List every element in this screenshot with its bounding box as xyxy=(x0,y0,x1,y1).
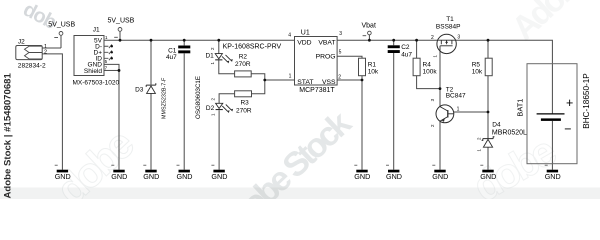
wire T1 gate to T2 collector xyxy=(439,51,441,106)
wire D3 top xyxy=(150,40,152,84)
svg-text:BC847: BC847 xyxy=(446,93,466,100)
LED D2 xyxy=(195,76,233,119)
node base junction xyxy=(487,111,490,114)
node shield junction xyxy=(118,69,121,72)
ground C2 xyxy=(386,165,402,181)
D2 triangle xyxy=(216,103,223,108)
T1 gate bar xyxy=(440,45,452,47)
footer watermark band xyxy=(0,188,600,200)
svg-text:3: 3 xyxy=(339,31,342,37)
wire J1 GND pin xyxy=(104,64,119,70)
ground J2 xyxy=(55,165,71,181)
D2 cathode bar xyxy=(216,109,223,110)
wire battery cell to GND xyxy=(551,121,553,170)
no-connect pin ID xyxy=(104,57,112,61)
BAT1 holder outline xyxy=(527,64,577,164)
ground D4 xyxy=(480,165,496,181)
resistor R5 xyxy=(472,58,493,75)
node J1 5V junction xyxy=(119,39,122,42)
battery BAT1 xyxy=(516,64,591,164)
node junction dots xyxy=(118,39,490,114)
T2 base bar xyxy=(447,110,449,117)
svg-text:MCP7381T: MCP7381T xyxy=(299,87,335,94)
svg-text:GND: GND xyxy=(55,172,71,181)
D1 emission arrows xyxy=(222,55,231,62)
wire VSS node to GND xyxy=(361,80,363,170)
T2 collector emitter xyxy=(440,107,448,122)
svg-text:BHC-18650-1P: BHC-18650-1P xyxy=(582,73,591,129)
wire T2 emitter to GND xyxy=(439,121,441,169)
svg-text:Vbat: Vbat xyxy=(362,22,376,29)
svg-text:+: + xyxy=(566,96,573,110)
wire Vbat flag drop xyxy=(368,35,370,40)
T2 emitter arrow xyxy=(441,118,444,122)
wire STAT node to U1 pin1 xyxy=(265,79,295,81)
wire R5 top xyxy=(487,40,489,58)
wire R2 to STAT node xyxy=(251,74,265,80)
wire D1 cathode to R2 xyxy=(219,60,235,74)
wire D3 bottom to GND xyxy=(150,94,152,170)
wire Vbat rail T1 to battery xyxy=(455,40,552,113)
svg-text:R2: R2 xyxy=(239,53,248,60)
node D3 junction xyxy=(150,39,153,42)
wire R1 bottom xyxy=(361,76,363,80)
D1 triangle xyxy=(215,54,222,59)
svg-text:4u7: 4u7 xyxy=(166,54,177,61)
T1 gate lead xyxy=(439,46,441,52)
R5 body xyxy=(485,58,492,75)
svg-text:T1: T1 xyxy=(446,16,454,23)
svg-text:GND: GND xyxy=(143,172,159,181)
svg-text:GND: GND xyxy=(545,172,561,181)
R3 body xyxy=(235,91,252,97)
ground T2 xyxy=(432,165,448,181)
svg-text:270R: 270R xyxy=(235,61,251,68)
node C1 junction xyxy=(183,39,186,42)
svg-text:R1: R1 xyxy=(368,61,377,68)
J1 body outline xyxy=(74,36,104,76)
R2 body xyxy=(235,71,252,77)
BAT1 positive plate xyxy=(537,113,565,115)
J2 crimp pins xyxy=(25,46,43,59)
T1 source-drain link xyxy=(438,39,456,41)
watermark Adobe Stock diagonal bottom-right outline xyxy=(465,127,563,211)
power flag Vbat xyxy=(362,22,376,35)
svg-text:BSS84P: BSS84P xyxy=(436,23,461,30)
svg-text:GND: GND xyxy=(354,172,370,181)
resistor R2 xyxy=(235,53,252,77)
wire R4 bottom to gate node xyxy=(417,76,440,89)
svg-text:2: 2 xyxy=(431,35,434,41)
svg-text:D1: D1 xyxy=(205,52,214,59)
wire C1 bottom to GND xyxy=(183,53,185,169)
svg-text:R4: R4 xyxy=(423,61,432,68)
watermark Adobe Stock diagonal top-left xyxy=(19,0,60,34)
svg-text:1: 1 xyxy=(457,106,460,112)
svg-text:4: 4 xyxy=(288,32,291,38)
wire D2 cathode to GND xyxy=(218,110,220,170)
svg-text:282834-2: 282834-2 xyxy=(18,62,46,69)
wire J1 shield to GND xyxy=(118,70,120,169)
node C2 junction xyxy=(392,39,395,42)
svg-text:OSG80603C1E: OSG80603C1E xyxy=(195,76,202,119)
D4 schottky bar xyxy=(482,137,495,141)
svg-text:J2: J2 xyxy=(18,38,25,45)
svg-text:Shield: Shield xyxy=(84,68,102,75)
J2 body outline xyxy=(16,46,42,60)
node R5 junction xyxy=(487,39,490,42)
svg-text:GND: GND xyxy=(480,172,496,181)
svg-text:D4: D4 xyxy=(492,121,501,128)
resistor R1 xyxy=(359,58,379,75)
svg-text:1: 1 xyxy=(289,73,292,79)
wire T2 base to node xyxy=(454,111,488,113)
wire R4 top xyxy=(416,40,418,58)
svg-text:GND: GND xyxy=(111,172,127,181)
D3 cathode bar xyxy=(146,83,156,87)
U1 body outline xyxy=(295,37,338,86)
capacitor C1 xyxy=(166,46,190,61)
wire U1 PROG to R1 xyxy=(337,56,362,58)
C1 plates xyxy=(178,46,190,49)
svg-text:KP-1608SRC-PRV: KP-1608SRC-PRV xyxy=(223,44,282,51)
svg-text:PROG: PROG xyxy=(316,54,336,61)
wire 5V_USB flag2 drop xyxy=(119,31,121,40)
svg-text:VDD: VDD xyxy=(297,40,311,47)
svg-text:U1: U1 xyxy=(301,29,310,36)
svg-text:MMSZ5232B-7-F: MMSZ5232B-7-F xyxy=(161,77,167,119)
T1 body arrow xyxy=(445,41,448,43)
power flag 5V_USB left xyxy=(48,22,75,38)
wire R3 to D2 anode xyxy=(219,94,235,104)
svg-text:J1: J1 xyxy=(93,26,100,33)
zener diode D3 xyxy=(135,77,167,119)
svg-text:D2: D2 xyxy=(206,105,215,112)
op-amp U1 MCP73831 charger xyxy=(288,29,342,94)
svg-text:MBR0520L: MBR0520L xyxy=(492,129,527,136)
ground C1 xyxy=(177,165,193,181)
D4 triangle xyxy=(483,139,492,147)
svg-text:2: 2 xyxy=(44,50,47,56)
T2 body circle xyxy=(436,105,454,123)
BAT1 negative plate xyxy=(541,118,561,121)
connector J2 xyxy=(16,38,47,69)
svg-text:GND: GND xyxy=(432,172,448,181)
svg-text:VBAT: VBAT xyxy=(318,40,335,47)
D1 cathode bar xyxy=(215,59,222,60)
wire Vbat rail U1 VBAT to T1 xyxy=(337,39,438,41)
svg-text:GND: GND xyxy=(386,172,402,181)
LED D1 xyxy=(205,44,281,65)
D2 emission arrows xyxy=(222,105,231,112)
wire base node to D4 xyxy=(487,112,489,139)
wire D1 top xyxy=(218,40,220,53)
svg-text:5V_USB: 5V_USB xyxy=(108,18,135,25)
no-connect pin D- xyxy=(104,44,112,48)
watermark Adobe Stock diagonal bottom-left outline xyxy=(47,121,142,214)
svg-text:2: 2 xyxy=(338,74,341,80)
svg-text:4u7: 4u7 xyxy=(401,52,412,59)
svg-text:−: − xyxy=(564,122,571,136)
transistor T2 BC847 xyxy=(430,87,466,128)
ground J1 xyxy=(111,165,127,181)
wire J2 pin2 to GND xyxy=(42,54,62,170)
svg-text:BAT1: BAT1 xyxy=(516,99,525,117)
schottky diode D4 xyxy=(477,121,527,151)
T1 body circle xyxy=(437,34,456,53)
wire 5V rail J1 to U1 VDD xyxy=(104,39,295,41)
svg-text:GND: GND xyxy=(177,172,193,181)
svg-text:Adobe Stock | #1548070681: Adobe Stock | #1548070681 xyxy=(3,72,14,198)
wire R5 bottom to base node xyxy=(487,76,489,112)
wire C2 bottom to GND xyxy=(393,53,395,170)
power flag 5V_USB right xyxy=(108,18,135,38)
node VSS junction xyxy=(361,79,364,82)
ground R1 VSS xyxy=(354,165,370,181)
watermark Adobe Stock diagonal center xyxy=(207,104,359,240)
svg-text:D3: D3 xyxy=(135,87,144,94)
svg-text:10k: 10k xyxy=(368,69,379,76)
wire U1 VSS to node xyxy=(337,79,362,81)
connector J1 xyxy=(73,26,120,86)
no-connect pin D+ xyxy=(104,51,112,55)
node Vbat junction xyxy=(368,39,371,42)
wire J2 pin1 to 5V_USB flag xyxy=(42,35,61,48)
wire C1 top xyxy=(183,40,185,45)
ground BAT1 xyxy=(545,165,561,181)
svg-text:100k: 100k xyxy=(423,69,438,76)
node gate junction xyxy=(439,87,442,90)
svg-text:VSS: VSS xyxy=(322,79,336,86)
resistor R4 xyxy=(413,58,437,75)
svg-text:5: 5 xyxy=(339,50,342,56)
watermark Adobe Stock diagonal top-right xyxy=(505,0,600,48)
svg-text:R3: R3 xyxy=(240,99,249,106)
R4 body xyxy=(413,58,420,75)
wire D4 anode to GND xyxy=(487,147,489,169)
ground D3 xyxy=(143,165,159,181)
ground D2 xyxy=(211,165,227,181)
C2 plates xyxy=(388,45,400,48)
wire J1 Shield pin xyxy=(104,69,119,71)
node R4 junction xyxy=(415,39,418,42)
svg-text:R5: R5 xyxy=(472,61,481,68)
T1 channel contacts xyxy=(441,40,452,44)
transistor T1 BSS84P xyxy=(431,16,460,58)
node STAT junction xyxy=(263,79,266,82)
svg-text:MX-67503-1020: MX-67503-1020 xyxy=(73,79,120,86)
D3 triangle xyxy=(147,86,156,93)
svg-text:3: 3 xyxy=(457,34,460,40)
svg-text:STAT: STAT xyxy=(297,79,313,86)
svg-text:5V_USB: 5V_USB xyxy=(48,22,75,29)
wire C2 top xyxy=(393,40,395,45)
wire R3 to STAT node xyxy=(252,80,265,94)
resistor R3 xyxy=(235,91,252,115)
svg-text:C2: C2 xyxy=(401,44,410,51)
T2 base lead xyxy=(448,113,454,115)
capacitor C2 xyxy=(388,44,413,58)
R1 body xyxy=(359,58,366,75)
node D1 junction xyxy=(217,39,220,42)
svg-text:10k: 10k xyxy=(472,69,483,76)
svg-text:270R: 270R xyxy=(236,108,252,115)
svg-text:GND: GND xyxy=(211,172,227,181)
